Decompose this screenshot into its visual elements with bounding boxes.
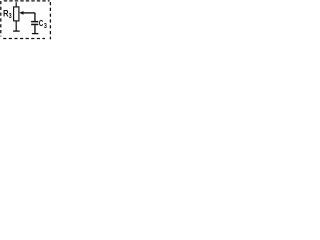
resistor R3 body (IEC box) (14, 7, 19, 21)
wiper arrow head (19, 11, 23, 15)
svg-text:C: C (39, 18, 44, 28)
resistor R3 top lead (15, 2, 17, 7)
dashed enclosure border right (49, 2, 51, 39)
svg-text:3: 3 (44, 23, 47, 30)
capacitor C3 bottom terminal bar (32, 33, 39, 35)
resistor R3 bottom terminal bar (13, 30, 20, 32)
wiper arrow shaft / wire (23, 12, 35, 14)
capacitor C3 top plate (31, 21, 38, 23)
capacitor C3 bottom lead (34, 25, 36, 33)
svg-text:3: 3 (9, 13, 12, 20)
dashed enclosure border top (4, 0, 50, 2)
resistor R3 bottom lead (15, 21, 17, 31)
dashed enclosure border left (0, 1, 2, 36)
capacitor C3 bottom plate (31, 23, 38, 25)
wire down to C3 (34, 13, 36, 21)
dashed enclosure border bottom (3, 38, 45, 40)
